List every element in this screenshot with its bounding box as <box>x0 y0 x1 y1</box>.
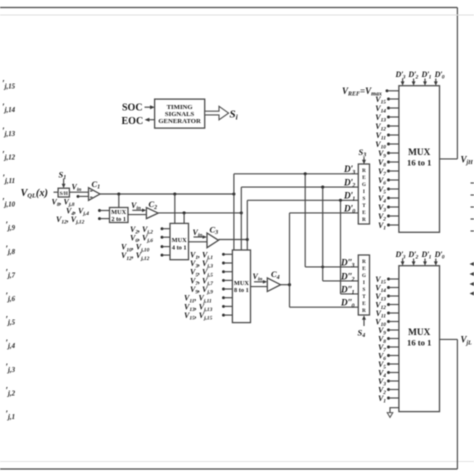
wire V4 to bottom MUX <box>389 372 399 374</box>
wire V11 input to MUX8 <box>222 296 225 299</box>
svg-text:I: I <box>363 281 365 286</box>
svg-text:E: E <box>362 176 366 181</box>
right edge cut wire stub 1 <box>471 182 474 184</box>
svg-text:Vin: Vin <box>253 272 263 283</box>
wire V8 stub to C1 <box>77 195 80 198</box>
svg-text:VjH: VjH <box>461 154 474 166</box>
timing signals generator U5 <box>155 99 205 128</box>
wire select arrows into top MUX <box>402 79 404 83</box>
wire D''0 to register2 <box>290 306 359 308</box>
wire MUX2 output to C2 <box>128 214 146 216</box>
junction D'1 to D''1 drop <box>339 199 342 202</box>
svg-text:SIGNALS: SIGNALS <box>165 111 195 118</box>
wire riser D'1 select MUX8 <box>246 200 248 250</box>
wire D'1 bus to register <box>247 199 358 201</box>
wire Vin arrow C2 <box>132 209 143 211</box>
ground <box>387 413 393 418</box>
wire C3 output bus <box>219 239 248 241</box>
wire VREF into top MUX <box>386 89 389 92</box>
wire bottom MUX to ground <box>390 408 399 413</box>
comparator C1 <box>89 188 101 201</box>
svg-text:′j,15: ′j,15 <box>2 79 16 91</box>
junction C1 to riser D'3 <box>232 192 235 195</box>
wire Vin sample-hold to C1 <box>69 191 88 193</box>
svg-text:I: I <box>363 190 365 195</box>
wire V12 to bottom MUX <box>389 304 399 306</box>
wire V11 to bottom MUX <box>389 312 399 314</box>
wire V15 to bottom MUX <box>389 278 399 280</box>
svg-text:E: E <box>362 211 366 216</box>
wire C2 output bus <box>158 212 241 214</box>
svg-text:′j,11: ′j,11 <box>2 173 15 185</box>
wire V8 to bottom MUX <box>389 338 399 340</box>
wire riser D'3 select MUX8 <box>233 174 235 250</box>
wire V9 input to MUX8 <box>222 288 225 291</box>
wire D''1 to register2 <box>341 293 359 295</box>
right edge cut wire stub 4 <box>471 218 474 220</box>
svg-text:G: G <box>362 183 366 188</box>
wire V2 to top MUX <box>389 215 399 217</box>
svg-text:R: R <box>362 260 366 265</box>
wire VQL to sample-hold <box>54 191 59 193</box>
wire V2 input to MUX4 <box>161 227 164 230</box>
svg-text:′j,14: ′j,14 <box>2 102 16 114</box>
svg-text:D′3: D′3 <box>395 250 406 261</box>
svg-text:′j,5: ′j,5 <box>5 315 15 327</box>
comparator C4 <box>267 278 280 292</box>
svg-text:S/H: S/H <box>60 192 68 197</box>
wire V5 input to MUX8 <box>222 270 225 273</box>
svg-text:D′1: D′1 <box>343 191 355 203</box>
wire V15 to top MUX <box>389 98 399 100</box>
wire Vin arrow C4 <box>254 281 264 283</box>
svg-text:D′0: D′0 <box>343 203 355 215</box>
wire S1 to sample-hold <box>63 179 65 185</box>
svg-text:D″3: D″3 <box>340 257 355 269</box>
wire drop D''1 <box>340 200 342 294</box>
multiplexer MUX 8 to 1 <box>232 250 250 323</box>
svg-text:GENERATOR: GENERATOR <box>158 118 201 125</box>
svg-text:Si: Si <box>230 109 239 122</box>
wire VjL feedback right vertical <box>456 339 458 469</box>
wire C1 output bus <box>100 193 234 195</box>
comparator C3 <box>207 233 219 248</box>
svg-text:D′2: D′2 <box>343 178 355 190</box>
right edge cut wire stub 5 <box>471 230 474 232</box>
wire V6 to bottom MUX <box>389 355 399 357</box>
svg-text:′j,12: ′j,12 <box>2 149 16 161</box>
wire V10 to bottom MUX <box>389 321 399 323</box>
wire select drop2 to MUX4 <box>183 213 185 224</box>
comparator C2 <box>146 208 158 219</box>
svg-text:EOC: EOC <box>122 116 144 127</box>
wire VjL feedback bottom horizontal <box>0 468 457 470</box>
wire V3 to top MUX <box>389 206 399 208</box>
svg-text:G: G <box>362 274 366 279</box>
svg-text:C3: C3 <box>210 224 219 236</box>
wire ghost echo bottom <box>0 461 474 463</box>
svg-text:′j,1: ′j,1 <box>5 409 15 421</box>
svg-text:D′1: D′1 <box>421 250 432 261</box>
signal Si bus arrow <box>205 106 229 120</box>
wire V9 to top MUX <box>389 152 399 154</box>
multiplexer MUX 16 to 1 high <box>399 86 440 233</box>
svg-text:D′3: D′3 <box>395 70 406 81</box>
svg-text:C1: C1 <box>92 179 101 191</box>
svg-text:S: S <box>363 288 366 293</box>
wire select drop to MUX2 <box>118 194 120 208</box>
svg-text:D′3: D′3 <box>343 164 355 176</box>
svg-text:16 to 1: 16 to 1 <box>407 338 431 348</box>
register REG2 <box>358 255 369 315</box>
wire D'0 bus to register <box>290 212 359 214</box>
svg-text:D′2: D′2 <box>407 70 418 81</box>
wire V7 to bottom MUX <box>389 346 399 348</box>
svg-text:2 to 1: 2 to 1 <box>111 216 126 223</box>
svg-text:V12, Vj,12: V12, Vj,12 <box>56 215 85 226</box>
svg-text:D″0: D″0 <box>340 298 355 310</box>
junction D'3 to D''3 drop <box>304 172 307 175</box>
sample-and-hold S/H <box>58 188 69 197</box>
svg-text:′j,13: ′j,13 <box>2 126 16 138</box>
wire V7 input to MUX8 <box>222 279 225 282</box>
svg-text:MUX: MUX <box>408 328 430 338</box>
wire V13 to top MUX <box>389 116 399 118</box>
svg-text:4 to 1: 4 to 1 <box>172 245 187 252</box>
svg-text:MUX: MUX <box>408 148 430 158</box>
svg-text:′j,3: ′j,3 <box>5 362 15 374</box>
wire V13 input to MUX8 <box>222 305 225 308</box>
wire C4 output <box>281 284 290 286</box>
svg-text:8 to 1: 8 to 1 <box>234 287 249 294</box>
wire riser D'0 <box>289 213 291 307</box>
svg-text:′j,2: ′j,2 <box>5 385 15 397</box>
wire V2 to bottom MUX <box>389 389 399 391</box>
wire S4 to register2 <box>363 319 365 326</box>
svg-text:S3: S3 <box>359 147 367 159</box>
multiplexer MUX 2 to 1 <box>110 208 129 223</box>
wire V15 input to MUX8 <box>222 314 225 317</box>
wire V1 to top MUX <box>389 224 399 226</box>
right edge cut wire stub 3 <box>471 206 474 208</box>
svg-text:E: E <box>362 302 366 307</box>
wire V14 to bottom MUX <box>389 287 399 289</box>
wire V1 input to MUX8 <box>222 253 225 256</box>
register REG1 <box>358 164 369 224</box>
wire D''2 to register2 <box>323 280 359 282</box>
wire top MUX output VjH <box>440 158 458 160</box>
svg-text:Vin: Vin <box>72 182 82 193</box>
svg-text:SOC: SOC <box>122 102 143 113</box>
svg-text:T: T <box>362 204 366 209</box>
svg-text:MUX: MUX <box>234 280 249 287</box>
svg-text:D′1: D′1 <box>421 70 432 81</box>
right edge cut arrowhead 3 <box>470 282 474 286</box>
svg-text:S4: S4 <box>358 328 366 340</box>
wire VjH feedback top horizontal <box>0 7 457 9</box>
wire V5 to top MUX <box>389 188 399 190</box>
wire V3 input to MUX8 <box>222 262 225 265</box>
svg-text:E: E <box>362 267 366 272</box>
wire ghost echo top <box>0 14 474 16</box>
svg-text:′j,10: ′j,10 <box>2 197 16 209</box>
svg-text:R: R <box>362 309 366 314</box>
svg-text:C2: C2 <box>149 199 158 211</box>
wire V14 to top MUX <box>389 107 399 109</box>
svg-text:′j,6: ′j,6 <box>5 291 15 303</box>
svg-text:S: S <box>363 197 366 202</box>
wire riser D'2 select MUX8 <box>240 187 242 250</box>
svg-text:S1: S1 <box>59 170 67 182</box>
wire V12 to top MUX <box>389 125 399 127</box>
svg-text:T: T <box>362 295 366 300</box>
svg-text:′j,9: ′j,9 <box>5 220 15 232</box>
wire V10 to top MUX <box>389 143 399 145</box>
wire V13 to bottom MUX <box>389 295 399 297</box>
wire select drop1 to MUX4 <box>174 194 176 223</box>
svg-text:16 to 1: 16 to 1 <box>407 158 431 168</box>
wire V12 input to MUX2 <box>98 217 101 220</box>
wire V1 to bottom MUX <box>389 397 399 399</box>
svg-text:VQL(x): VQL(x) <box>21 188 48 200</box>
wire V5 to bottom MUX <box>389 363 399 365</box>
wire V10 input to MUX4 <box>161 245 164 248</box>
wire V9 to bottom MUX <box>389 329 399 331</box>
wire drop D''2 <box>322 187 324 281</box>
wire V6 input to MUX4 <box>161 236 164 239</box>
wire V11 to top MUX <box>389 134 399 136</box>
right edge cut arrowhead 1 <box>470 262 474 266</box>
right edge cut wire stub 2 <box>471 194 474 196</box>
svg-text:VjL: VjL <box>461 335 473 347</box>
junction C4 to riser D'0 <box>288 283 291 286</box>
wire bottom MUX output VjL <box>440 338 458 340</box>
wire V4 to top MUX <box>389 197 399 199</box>
junction C3 to riser D'1 <box>246 238 249 241</box>
wire EOC output arrow <box>148 119 154 121</box>
svg-text:′j,4: ′j,4 <box>5 338 15 350</box>
wire D'2 bus to register <box>241 186 358 188</box>
wire V8 to top MUX <box>389 161 399 163</box>
wire V4 input to MUX2 <box>98 209 101 212</box>
wire MUX4 output to C3 <box>189 241 208 243</box>
svg-text:D″1: D″1 <box>340 284 355 296</box>
svg-text:′j,7: ′j,7 <box>5 267 15 279</box>
junction C1 to MUX2 select <box>117 192 120 195</box>
svg-text:R: R <box>362 218 366 223</box>
svg-text:D″2: D″2 <box>340 271 355 283</box>
svg-text:TIMING: TIMING <box>167 104 194 111</box>
junction C2 to MUX4 select <box>183 211 186 214</box>
wire V7 to top MUX <box>389 170 399 172</box>
wire drop D''3 <box>304 174 306 267</box>
wire select arrows into bottom MUX <box>402 259 404 263</box>
right edge cut arrowhead 4 <box>470 292 474 296</box>
junction C1 to MUX4 select <box>173 192 176 195</box>
wire V6 to top MUX <box>389 179 399 181</box>
multiplexer MUX 4 to 1 <box>170 223 189 259</box>
svg-text:R: R <box>362 169 366 174</box>
wire D'3 bus to register <box>234 173 358 175</box>
wire D''3 to register2 <box>305 266 358 268</box>
junction C2 to riser D'2 <box>240 211 243 214</box>
wire S3 to register1 <box>363 157 365 161</box>
wire MUX8 output to C4 <box>251 286 268 288</box>
wire VjH feedback right vertical <box>456 8 458 159</box>
wire V14 input to MUX4 <box>161 254 164 257</box>
wire V3 to bottom MUX <box>389 380 399 382</box>
junction D'2 to D''2 drop <box>321 186 324 189</box>
svg-text:C4: C4 <box>271 269 280 281</box>
multiplexer MUX 16 to 1 low <box>399 266 440 412</box>
wire SOC input arrow <box>145 106 152 108</box>
svg-text:′j,8: ′j,8 <box>5 244 15 256</box>
svg-text:D′2: D′2 <box>407 250 418 261</box>
svg-text:MUX: MUX <box>172 237 187 244</box>
wire Vin arrow C3 <box>194 236 204 238</box>
right edge cut arrowhead 2 <box>470 272 474 276</box>
